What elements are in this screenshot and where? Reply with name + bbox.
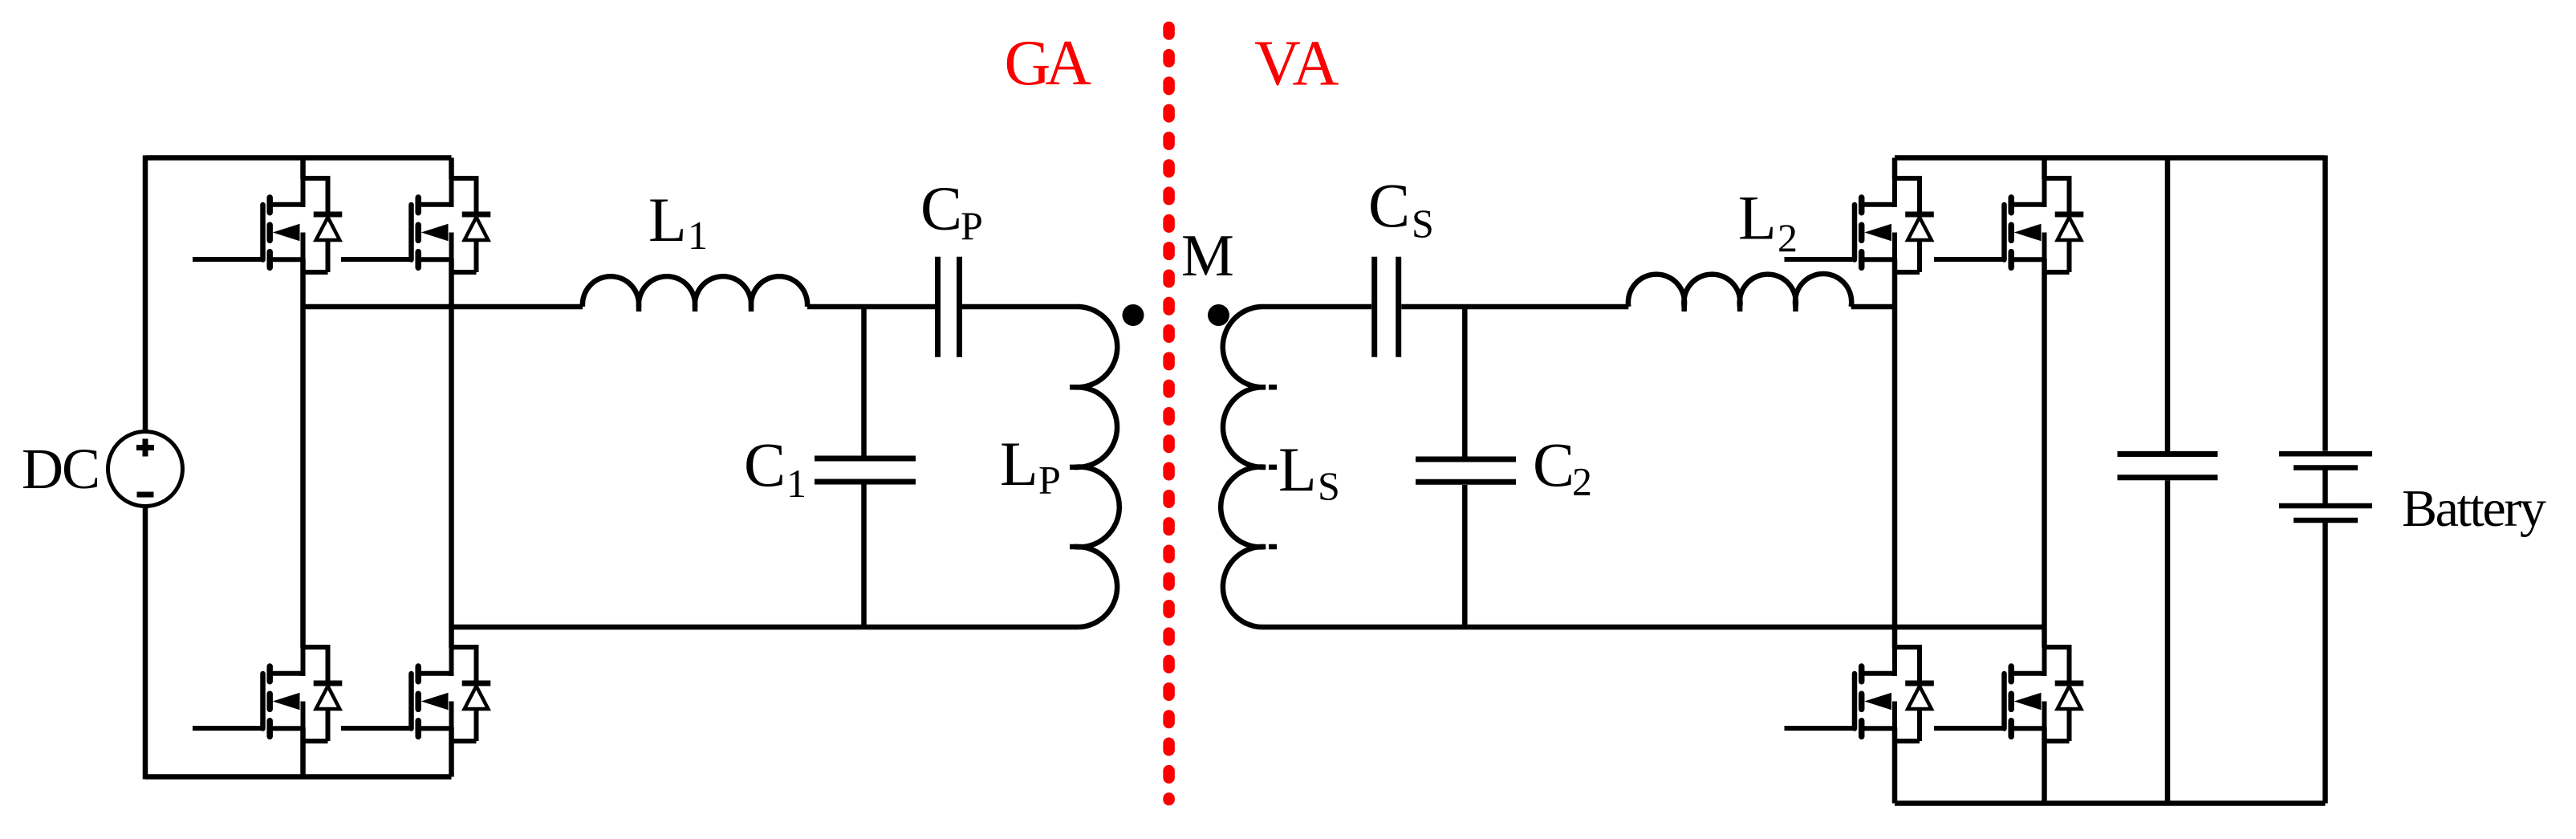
svg-text:M: M — [1181, 223, 1234, 289]
node: LP polarity dot — [1123, 304, 1144, 326]
wire: L2 to VA bridge — [1851, 304, 1895, 310]
node: GA top rail — [145, 155, 452, 161]
wire: C1 to bottom rail — [861, 485, 867, 628]
svg-text:L: L — [1738, 183, 1777, 253]
transistor Q8 (VA bridge bottom-right) — [1934, 646, 2083, 741]
svg-text:VA: VA — [1254, 29, 1339, 100]
svg-text:1: 1 — [786, 461, 807, 506]
wire: filter cap top — [2165, 158, 2171, 452]
svg-text:C: C — [1533, 430, 1574, 499]
transistor Q4 (GA bridge bottom-right) — [341, 646, 490, 741]
label C1 — [744, 430, 807, 506]
wire: L1 to CP — [807, 304, 935, 310]
wire: VA right leg lower — [2042, 727, 2047, 804]
transistor Q1 (GA bridge top-left) — [193, 177, 342, 272]
label CP — [920, 173, 983, 249]
transistor Q6 (VA bridge top-right) — [1934, 177, 2083, 272]
GA/VA boundary dashed line — [1163, 27, 1175, 800]
node: VA bottom rail — [1895, 800, 2326, 806]
capacitor CS — [1375, 257, 1399, 357]
wire: GA left leg upper — [300, 158, 306, 180]
wire: battery bottom — [2322, 522, 2328, 804]
transistor Q2 (GA bridge top-right) — [341, 177, 490, 272]
wire: VA left leg upper — [1892, 158, 1898, 180]
node: VA top rail — [1895, 155, 2326, 161]
wire: GA right leg lower — [449, 727, 454, 777]
coil LS cusp tails — [1269, 387, 1277, 547]
wire: C2 to bottom rail — [1462, 485, 1468, 627]
wire: VA mid bottom rail — [1261, 625, 2045, 630]
label L2 — [1738, 183, 1798, 261]
coil LS — [1221, 307, 1266, 627]
wire: GA left leg lower — [300, 727, 306, 777]
coil LP — [1075, 307, 1119, 627]
label CS — [1368, 170, 1434, 246]
capacitor C1 — [815, 458, 916, 482]
svg-text:1: 1 — [688, 213, 708, 258]
svg-text:L: L — [1000, 429, 1038, 499]
svg-text:P: P — [1038, 458, 1061, 503]
wire: VA left leg lower — [1892, 727, 1898, 804]
wire: GA bridge output to L1 — [303, 304, 583, 310]
svg-text:GA: GA — [1005, 28, 1092, 99]
transistor Q5 (VA bridge top-left) — [1785, 177, 1934, 272]
svg-text:C: C — [744, 430, 786, 499]
svg-text:DC: DC — [22, 437, 99, 501]
svg-text:P: P — [961, 203, 983, 248]
svg-text:S: S — [1318, 463, 1340, 508]
coil LP cusp tails — [1070, 387, 1078, 547]
transistor Q3 (GA bridge bottom-left) — [193, 646, 342, 741]
svg-text:C: C — [1368, 170, 1410, 240]
node: GA bottom rail — [145, 774, 452, 780]
wire: VA right leg middle — [2042, 259, 2047, 648]
DC source V1 — [108, 432, 183, 507]
inductor L1 — [583, 276, 807, 307]
node: C2 junction — [1462, 304, 1468, 457]
node: LS polarity dot — [1208, 304, 1229, 326]
wire: GA right leg middle — [449, 259, 454, 648]
node: C1 junction — [861, 304, 867, 456]
wire: GA right leg upper — [449, 158, 454, 180]
wire: LS to CS — [1260, 304, 1371, 310]
label L1 — [648, 185, 708, 258]
svg-text:S: S — [1412, 201, 1434, 246]
capacitor C2 — [1416, 459, 1516, 482]
wire: CP to LP — [962, 304, 1080, 310]
svg-text:L: L — [648, 185, 687, 255]
svg-text:2: 2 — [1572, 459, 1592, 504]
wire: battery top — [2322, 156, 2328, 451]
wire: VA left leg middle — [1892, 259, 1898, 648]
label LP — [1000, 429, 1061, 503]
battery — [2279, 454, 2372, 520]
wire DC- to bottom rail — [143, 507, 148, 780]
wire DC+ to top rail — [143, 156, 148, 432]
label LS — [1278, 434, 1340, 508]
wire: CS to L2 — [1401, 304, 1628, 310]
transistor Q7 (VA bridge bottom-left) — [1785, 646, 1934, 741]
inductor L2 — [1628, 274, 1851, 307]
wire: VA right leg upper — [2042, 158, 2047, 180]
wire: GA left leg middle — [300, 259, 306, 648]
wire: filter cap bottom — [2165, 480, 2171, 803]
svg-text:2: 2 — [1778, 215, 1798, 260]
inductor L1 cusp ticks — [639, 305, 751, 312]
inductor L2 cusp ticks — [1684, 305, 1796, 312]
filter capacitor — [2118, 454, 2218, 478]
label C2 — [1533, 430, 1592, 504]
svg-text:Battery: Battery — [2402, 479, 2546, 538]
svg-text:L: L — [1278, 434, 1317, 504]
wire: GA mid bottom rail — [452, 625, 1080, 630]
capacitor CP — [938, 257, 960, 357]
svg-text:C: C — [920, 173, 962, 243]
